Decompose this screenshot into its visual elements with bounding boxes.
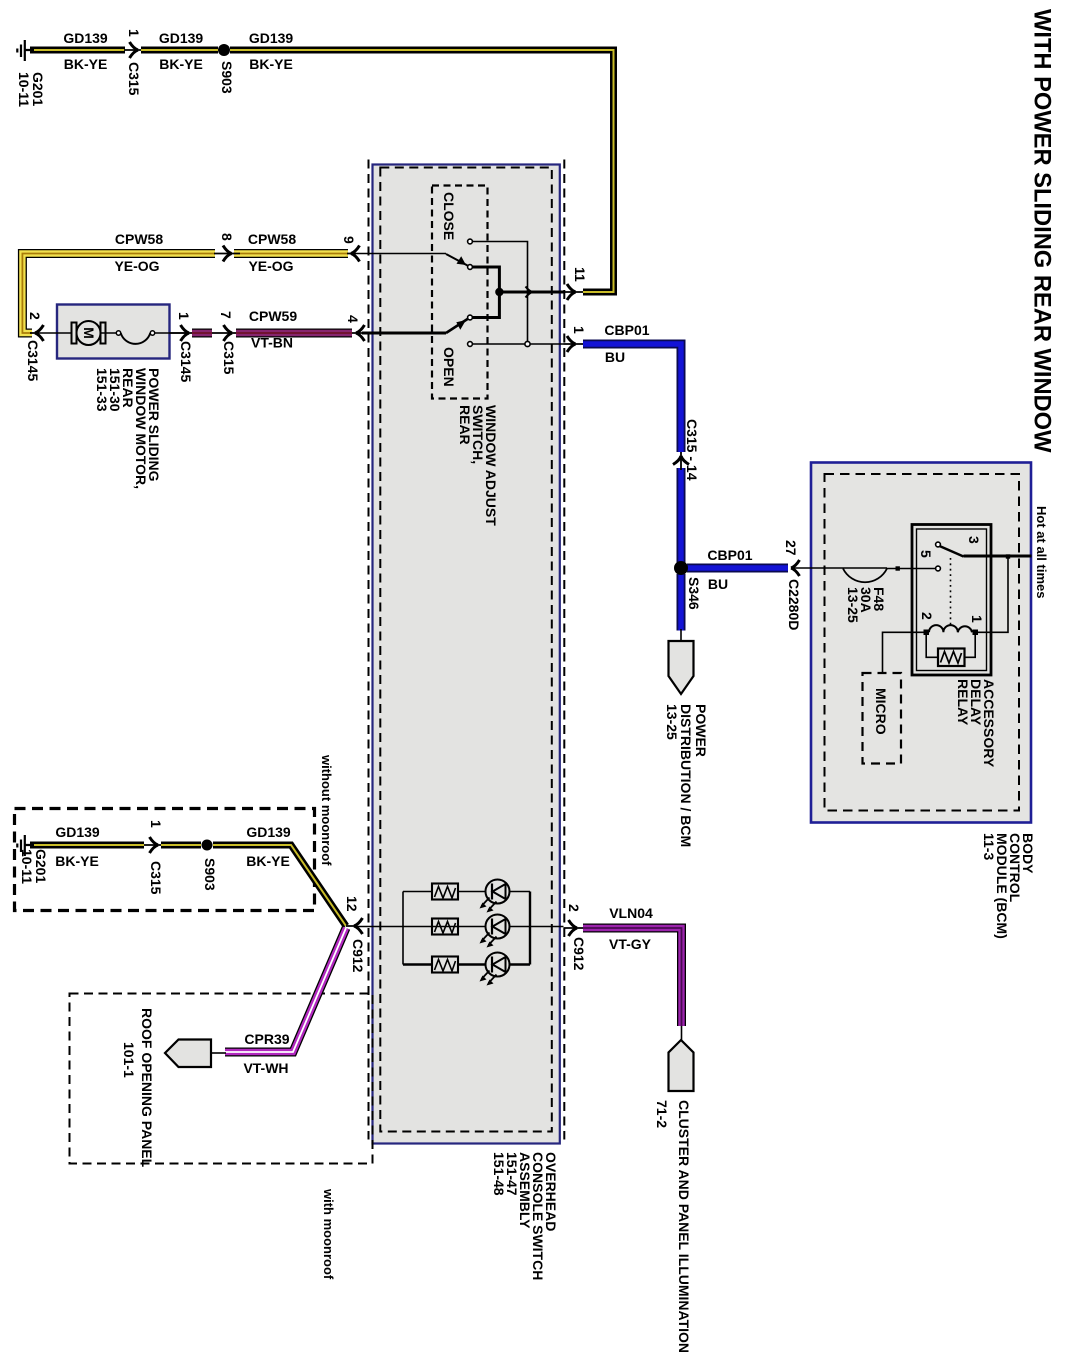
svg-text:1: 1 (571, 326, 587, 334)
svg-text:BK-YE: BK-YE (159, 56, 203, 72)
svg-text:C315: C315 (148, 861, 164, 895)
svg-text:2: 2 (566, 904, 582, 912)
svg-text:151-33: 151-33 (94, 368, 110, 412)
svg-text:GD139: GD139 (246, 824, 291, 840)
svg-text:1: 1 (969, 615, 985, 623)
svg-text:VT-WH: VT-WH (243, 1060, 288, 1076)
svg-text:10-11: 10-11 (19, 849, 35, 884)
svg-text:12: 12 (344, 896, 360, 912)
svg-text:S903: S903 (219, 61, 235, 94)
svg-text:C315 - 14: C315 - 14 (684, 419, 700, 481)
svg-text:101-1: 101-1 (121, 1042, 137, 1078)
svg-text:VLN04: VLN04 (609, 905, 653, 921)
svg-text:CPW59: CPW59 (249, 308, 297, 324)
svg-text:GD139: GD139 (55, 824, 100, 840)
svg-text:MICRO: MICRO (873, 688, 889, 735)
svg-text:1: 1 (148, 820, 164, 828)
svg-text:3: 3 (966, 536, 982, 544)
svg-text:27: 27 (783, 540, 799, 556)
svg-text:13-25: 13-25 (664, 704, 680, 740)
svg-text:2: 2 (27, 312, 43, 320)
svg-text:CPW58: CPW58 (115, 231, 163, 247)
svg-text:POWER: POWER (693, 704, 709, 757)
svg-text:CPW58: CPW58 (248, 231, 296, 247)
svg-text:C3145: C3145 (25, 340, 41, 381)
svg-text:C2280D: C2280D (786, 579, 802, 630)
svg-text:C315: C315 (126, 62, 142, 96)
svg-text:7: 7 (218, 311, 234, 319)
svg-text:11-3: 11-3 (981, 833, 997, 860)
svg-text:4: 4 (345, 315, 361, 323)
svg-text:YE-OG: YE-OG (114, 258, 159, 274)
svg-text:9: 9 (341, 236, 357, 244)
svg-text:2: 2 (919, 612, 935, 620)
svg-text:BK-YE: BK-YE (64, 56, 108, 72)
svg-text:C315: C315 (221, 341, 237, 375)
svg-text:with moonroof: with moonroof (321, 1188, 336, 1280)
svg-text:C3145: C3145 (178, 341, 194, 382)
svg-text:71-2: 71-2 (654, 1100, 670, 1128)
svg-text:without moonroof: without moonroof (319, 754, 334, 866)
svg-text:CPR39: CPR39 (244, 1031, 289, 1047)
svg-text:5: 5 (918, 550, 934, 558)
svg-text:Hot at all times: Hot at all times (1034, 506, 1049, 598)
svg-text:REAR: REAR (457, 405, 473, 445)
svg-text:BK-YE: BK-YE (249, 56, 293, 72)
svg-text:VT-BN: VT-BN (251, 335, 293, 351)
svg-text:BU: BU (708, 576, 728, 592)
svg-text:CLOSE: CLOSE (441, 192, 457, 240)
svg-text:GD139: GD139 (159, 30, 204, 46)
svg-text:CBP01: CBP01 (707, 547, 752, 563)
svg-text:10-11: 10-11 (16, 72, 32, 107)
svg-text:S346: S346 (686, 577, 702, 610)
svg-text:GD139: GD139 (63, 30, 108, 46)
svg-text:11: 11 (572, 267, 588, 282)
svg-text:ROOF OPENING PANEL: ROOF OPENING PANEL (139, 1008, 155, 1168)
svg-text:VT-GY: VT-GY (609, 936, 652, 952)
svg-text:1: 1 (176, 312, 192, 320)
svg-text:151-48: 151-48 (491, 1152, 507, 1196)
svg-text:CLUSTER AND PANEL ILLUMINATION: CLUSTER AND PANEL ILLUMINATION (676, 1100, 692, 1353)
svg-text:OPEN: OPEN (441, 347, 457, 387)
svg-text:GD139: GD139 (249, 30, 294, 46)
svg-text:13-25: 13-25 (845, 587, 861, 623)
svg-text:8: 8 (219, 233, 235, 241)
svg-text:CBP01: CBP01 (604, 322, 649, 338)
svg-text:BU: BU (605, 349, 625, 365)
svg-text:C912: C912 (571, 937, 587, 971)
svg-text:C912: C912 (350, 939, 366, 973)
svg-text:BK-YE: BK-YE (246, 853, 290, 869)
svg-text:WITH POWER SLIDING REAR WINDOW: WITH POWER SLIDING REAR WINDOW (1029, 9, 1055, 453)
svg-text:1: 1 (126, 29, 142, 37)
svg-text:BK-YE: BK-YE (55, 853, 99, 869)
svg-text:YE-OG: YE-OG (248, 258, 293, 274)
svg-text:S903: S903 (202, 858, 218, 891)
svg-text:RELAY: RELAY (955, 679, 971, 726)
svg-text:M: M (81, 327, 97, 339)
